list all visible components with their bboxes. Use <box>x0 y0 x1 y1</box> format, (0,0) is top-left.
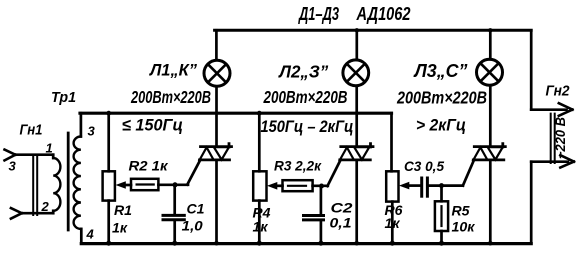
wire lamp Л3 to triac <box>489 86 492 145</box>
wire R4 to bottom rail <box>258 201 261 244</box>
node R1 top junction <box>106 111 111 116</box>
connector Гн1 pin bottom arrow <box>11 208 22 219</box>
node bottom rail junctions <box>106 241 111 246</box>
transformer Тр1 primary winding <box>52 155 55 158</box>
svg-text:3: 3 <box>88 124 96 139</box>
triac Д1 top bar <box>201 144 232 147</box>
node C1 junction <box>173 182 178 187</box>
potentiometer R6 wiper arrow <box>399 182 409 190</box>
resistor R3 <box>276 184 283 187</box>
resistor R5 wire from node <box>440 186 443 202</box>
wire R2 to gate node <box>158 183 188 186</box>
svg-text:R5: R5 <box>452 203 470 219</box>
potentiometer R4 wire from mid rail <box>258 113 261 171</box>
wire bottom rail <box>81 242 531 245</box>
svg-text:200Вт×220В: 200Вт×220В <box>263 87 348 107</box>
connector Гн1 pin top arrow <box>5 150 16 161</box>
connector Гн2 top pin <box>531 108 566 111</box>
capacitor C3 wire from wiper <box>408 184 420 187</box>
svg-text:10к: 10к <box>452 219 476 235</box>
lamp Л1 <box>204 60 230 86</box>
wire R3 to gate node <box>313 184 328 187</box>
svg-text:R3 2,2к: R3 2,2к <box>274 158 322 174</box>
lamp Л2 wire from top rail <box>355 30 358 60</box>
connector Гн1 socket double bar <box>33 156 37 215</box>
node lamp Л3 top rail junction <box>488 28 492 32</box>
connector Гн2 socket double bar <box>551 114 555 163</box>
node C2 junction <box>319 184 324 189</box>
capacitor C1 <box>173 185 176 214</box>
svg-text:> 2кГц: > 2кГц <box>416 116 466 135</box>
wire R5 to bottom rail <box>440 231 443 243</box>
svg-text:Л1„К”: Л1„К” <box>148 61 197 80</box>
potentiometer R1 wire from mid rail <box>107 113 110 171</box>
svg-text:1к: 1к <box>385 215 401 231</box>
svg-text:Л3„С”: Л3„С” <box>413 61 468 81</box>
svg-text:~220 В: ~220 В <box>552 117 568 159</box>
node lamp Л2 top rail junction <box>355 28 359 32</box>
svg-text:R2 1к: R2 1к <box>129 158 169 174</box>
svg-text:1,0: 1,0 <box>182 218 203 234</box>
capacitor C3 <box>420 178 423 196</box>
svg-text:Л2„З”: Л2„З” <box>277 62 328 82</box>
svg-text:1к: 1к <box>112 220 128 236</box>
svg-text:АД1062: АД1062 <box>356 4 411 24</box>
triac Д2 triangles <box>340 147 369 160</box>
svg-text:150Гц – 2кГц: 150Гц – 2кГц <box>261 117 354 136</box>
svg-text:С1: С1 <box>187 201 205 217</box>
wire triac Д2 gate <box>327 161 340 187</box>
svg-text:Гн2: Гн2 <box>546 83 571 100</box>
wire triac Д1 cathode to bottom rail <box>215 160 218 243</box>
potentiometer R4 body <box>253 171 266 200</box>
triac Д3 top bar <box>474 144 505 147</box>
resistor R2 <box>125 184 131 187</box>
node R4 top junction <box>257 111 262 116</box>
connector Гн2 bottom pin <box>531 160 568 163</box>
svg-text:200Вт×220В: 200Вт×220В <box>396 88 487 108</box>
wire triac Д1 gate <box>187 161 200 185</box>
potentiometer R1 body <box>103 171 115 200</box>
wire triac Д2 cathode to bottom rail <box>355 160 358 243</box>
potentiometer R1 wiper arrow <box>116 181 126 189</box>
svg-text:3: 3 <box>9 159 17 174</box>
svg-text:2: 2 <box>41 199 50 214</box>
wire Гн1 bottom pin to primary <box>22 212 53 215</box>
triac Д2 top bar <box>341 144 373 147</box>
svg-text:R1: R1 <box>114 202 132 218</box>
wire triac Д3 gate <box>463 161 474 186</box>
triac Д1 triangles <box>200 147 229 160</box>
node R5 junction <box>439 183 444 188</box>
svg-text:≤ 150Гц: ≤ 150Гц <box>122 116 183 135</box>
potentiometer R4 wiper arrow <box>267 182 277 190</box>
svg-text:С2: С2 <box>331 200 353 216</box>
svg-text:С3 0,5: С3 0,5 <box>404 158 444 174</box>
wire right rail upper <box>530 30 533 109</box>
triac Д3 triangles <box>473 147 502 160</box>
wire right rail lower <box>530 162 533 244</box>
svg-text:4: 4 <box>86 227 95 242</box>
lamp Л3 wire from top rail <box>489 30 492 59</box>
transformer Тр1 core <box>67 133 70 230</box>
svg-text:Гн1: Гн1 <box>20 122 43 139</box>
capacitor C2 <box>320 186 323 214</box>
lamp Л2 <box>343 60 369 86</box>
wire R1 to bottom rail <box>107 201 110 244</box>
svg-text:Тр1: Тр1 <box>51 89 76 106</box>
svg-text:1к: 1к <box>253 219 269 235</box>
wire triac Д3 cathode to bottom rail <box>489 160 492 243</box>
transformer Тр1 secondary winding <box>80 113 83 136</box>
wire lamp Л1 to triac <box>215 87 218 146</box>
wire top rail <box>215 29 532 32</box>
wire mid rail drop to R6 <box>390 113 393 171</box>
wire lamp Л2 to triac <box>355 87 358 146</box>
svg-text:0,1: 0,1 <box>330 215 352 231</box>
resistor R5 body <box>435 201 448 231</box>
potentiometer R6 body <box>386 171 398 201</box>
svg-text:200Вт×220В: 200Вт×220В <box>130 87 211 107</box>
wire mid rail (transformer secondary top) <box>80 112 392 115</box>
wire R6 to bottom rail <box>391 202 394 244</box>
triac Д1 bottom bar <box>200 158 230 161</box>
wire C3 to gate node <box>429 184 463 187</box>
lamp Л3 <box>477 59 503 85</box>
svg-text:Д1–Д3: Д1–Д3 <box>298 4 339 24</box>
wire Гн1 top pin to primary <box>15 153 53 156</box>
triac Д2 bottom bar <box>340 158 371 161</box>
svg-text:1: 1 <box>46 141 53 156</box>
triac Д3 bottom bar <box>473 158 504 161</box>
lamp Л1 wire from top rail <box>215 30 218 60</box>
